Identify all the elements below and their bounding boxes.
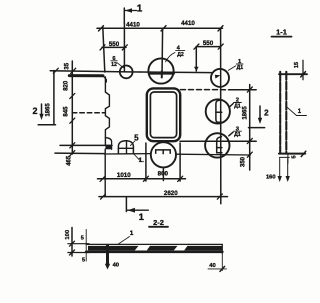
svg-text:100: 100 (65, 230, 71, 240)
svg-text:Д1: Д1 (234, 103, 241, 109)
svg-text:2-2: 2-2 (153, 218, 164, 227)
svg-text:550: 550 (203, 40, 214, 47)
svg-text:2: 2 (32, 106, 37, 116)
svg-text:350: 350 (240, 156, 246, 167)
svg-text:2620: 2620 (164, 190, 178, 197)
svg-text:Д2: Д2 (177, 52, 184, 58)
svg-text:465: 465 (66, 155, 72, 166)
svg-text:820: 820 (64, 80, 70, 91)
svg-text:4410: 4410 (181, 20, 195, 27)
svg-text:40: 40 (113, 262, 119, 268)
svg-text:1010: 1010 (117, 172, 131, 179)
svg-text:1-1: 1-1 (276, 28, 287, 37)
svg-text:5: 5 (81, 235, 84, 241)
svg-text:845: 845 (64, 106, 70, 117)
svg-text:35: 35 (64, 62, 70, 69)
svg-text:40: 40 (209, 263, 215, 269)
svg-text:550: 550 (109, 41, 120, 48)
svg-text:1865: 1865 (242, 106, 248, 120)
svg-text:Д1: Д1 (234, 132, 241, 138)
svg-text:Д1: Д1 (237, 65, 244, 71)
svg-text:5: 5 (82, 257, 85, 263)
svg-text:15: 15 (294, 62, 300, 68)
svg-text:5: 5 (292, 155, 298, 158)
svg-text:1: 1 (130, 230, 134, 237)
svg-text:1865: 1865 (45, 103, 51, 117)
svg-text:1: 1 (139, 212, 145, 223)
svg-text:2: 2 (264, 109, 269, 118)
svg-text:12: 12 (111, 62, 117, 68)
svg-text:1: 1 (137, 4, 143, 15)
svg-text:4410: 4410 (126, 22, 140, 29)
svg-text:160: 160 (266, 175, 276, 181)
